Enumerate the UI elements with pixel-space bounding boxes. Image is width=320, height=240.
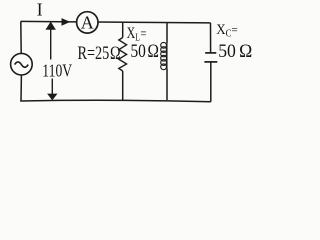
svg-text:A: A: [81, 13, 94, 33]
svg-text:I: I: [37, 0, 43, 20]
wire left vertical upper: [20, 21, 22, 53]
ac source tilde: [15, 62, 29, 67]
label 50 ohm (capacitor): [218, 41, 252, 62]
svg-text:50Ω: 50Ω: [131, 41, 159, 62]
inductor L coil: [166, 43, 168, 68]
svg-text:XC=: XC=: [216, 21, 238, 39]
voltage arrow lower segment: [51, 79, 53, 95]
label 110V: [42, 62, 72, 81]
wire top-right segment: [98, 21, 210, 24]
wire top-left segment: [21, 20, 77, 23]
label R=25 ohm: [78, 42, 121, 63]
wire bottom: [20, 100, 211, 101]
capacitor C bottom plate: [204, 61, 217, 63]
voltage arrowhead up: [46, 22, 56, 30]
voltage arrowhead down: [47, 94, 57, 101]
svg-text:110V: 110V: [42, 62, 72, 81]
wire R branch bottom lead: [122, 71, 124, 100]
wire right vertical lower (capacitor bottom lead): [210, 62, 212, 102]
label XL=: [127, 24, 147, 42]
capacitor C top plate: [205, 52, 216, 54]
wire right vertical upper (capacitor top lead): [210, 23, 212, 53]
ammeter A1 circle: [77, 12, 98, 33]
voltage arrow upper segment: [50, 27, 52, 60]
svg-text:50Ω: 50Ω: [218, 41, 252, 62]
wire L branch bottom lead: [166, 69, 168, 101]
svg-text:R=25Ω: R=25Ω: [78, 42, 121, 63]
current arrowhead on top wire: [62, 18, 71, 26]
wire left vertical lower: [20, 75, 22, 101]
wire R branch top lead: [122, 22, 124, 37]
label XC=: [216, 21, 238, 39]
resistor R zigzag: [119, 38, 127, 72]
label 50 ohm (inductor): [131, 41, 159, 62]
ac source V1 circle: [11, 53, 33, 75]
wire L branch top lead: [166, 23, 168, 44]
